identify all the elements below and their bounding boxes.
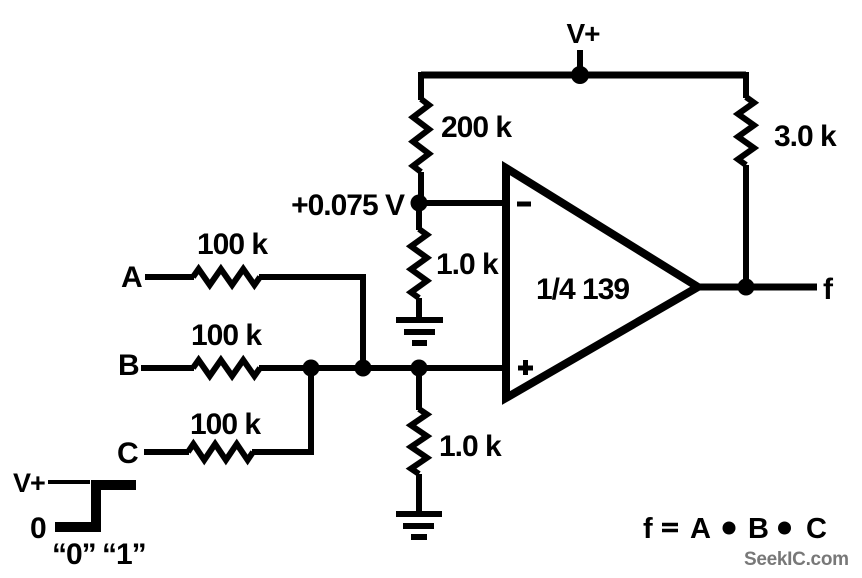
wire input A bbox=[145, 274, 194, 280]
node A junction bbox=[355, 360, 372, 377]
svg-text:B: B bbox=[118, 349, 139, 382]
svg-text:A: A bbox=[121, 261, 142, 294]
node output bbox=[738, 279, 755, 296]
svg-text:1.0 k: 1.0 k bbox=[436, 248, 499, 281]
svg-text:200 k: 200 k bbox=[441, 111, 512, 144]
svg-text:V+: V+ bbox=[13, 468, 45, 498]
node minus input bbox=[411, 195, 428, 212]
ground upper bbox=[396, 320, 443, 343]
wire minus node to op-amp bbox=[419, 200, 504, 206]
resistor R 100k C bbox=[188, 444, 253, 460]
wire 1.0k to ground bbox=[416, 298, 422, 320]
node C junction bbox=[303, 360, 320, 377]
node V+ junction bbox=[571, 66, 589, 84]
pin plus sign bbox=[518, 360, 533, 375]
svg-text:A: A bbox=[690, 513, 711, 545]
svg-text:+0.075 V: +0.075 V bbox=[291, 189, 405, 222]
svg-text:0: 0 bbox=[30, 512, 46, 545]
resistor R 3.0k bbox=[738, 97, 754, 165]
wire C resistor to corner up bbox=[252, 368, 311, 452]
svg-text:100 k: 100 k bbox=[197, 228, 268, 261]
waveform step 0 to 1 bbox=[55, 485, 136, 527]
svg-text:100 k: 100 k bbox=[191, 319, 262, 352]
svg-text:C: C bbox=[806, 513, 827, 545]
resistor R 100k B bbox=[193, 360, 260, 376]
svg-text:1.0 k: 1.0 k bbox=[439, 430, 502, 463]
resistor R 1.0k upper bbox=[411, 229, 427, 298]
svg-text:V+: V+ bbox=[566, 18, 600, 49]
label equals sign bbox=[662, 525, 678, 531]
wire plus node to 1.0k lower bbox=[416, 368, 422, 410]
wire input C bbox=[144, 449, 189, 455]
wire minus node to 1.0k bbox=[416, 203, 422, 230]
wire left rail top segment bbox=[418, 72, 424, 100]
svg-text:“0”: “0” bbox=[52, 538, 96, 571]
wire 3.0k to output node bbox=[743, 165, 749, 287]
wire output bbox=[694, 284, 817, 291]
resistor R 100k A bbox=[193, 269, 260, 285]
wire right rail down bbox=[743, 72, 749, 98]
label equation f = A.B.C bbox=[643, 513, 827, 545]
ground lower bbox=[396, 514, 442, 537]
svg-text:1/4 139: 1/4 139 bbox=[536, 273, 629, 306]
resistor R 200k bbox=[413, 99, 429, 172]
op-amp U1 1/4 139 bbox=[506, 168, 698, 398]
svg-text:100 k: 100 k bbox=[190, 408, 261, 441]
svg-text:3.0 k: 3.0 k bbox=[774, 120, 837, 153]
resistor R 1.0k lower bbox=[411, 409, 427, 474]
svg-text:SeekIC.com: SeekIC.com bbox=[744, 549, 849, 570]
wire summing row to op-amp plus bbox=[259, 365, 504, 371]
wire input B bbox=[141, 365, 194, 371]
dot bullet 2 bbox=[778, 522, 791, 535]
wire top rail V+ bbox=[421, 72, 746, 79]
node plus input bbox=[411, 360, 428, 377]
svg-text:“1”: “1” bbox=[102, 538, 146, 571]
wire 1.0k lower to ground bbox=[416, 474, 422, 514]
wire V+ level dash bbox=[48, 480, 90, 484]
pin minus sign bbox=[517, 202, 531, 207]
svg-text:C: C bbox=[117, 437, 138, 470]
wire A resistor to corner bbox=[259, 277, 363, 368]
dot bullet 1 bbox=[723, 522, 736, 535]
svg-text:f: f bbox=[643, 513, 653, 545]
svg-text:B: B bbox=[748, 513, 768, 545]
wire V+ stub bbox=[577, 50, 583, 75]
wire 200k to minus node bbox=[418, 172, 424, 203]
